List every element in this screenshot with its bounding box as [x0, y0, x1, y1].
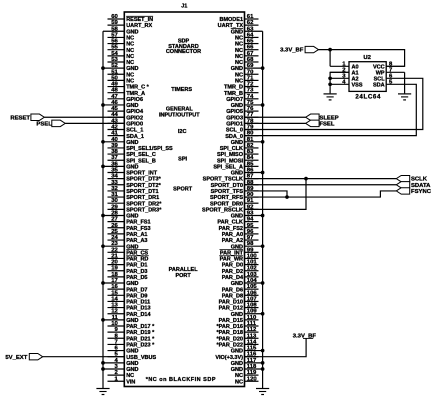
- svg-text:18: 18: [111, 272, 118, 278]
- pin 50 NC: [108, 75, 135, 84]
- svg-text:37: 37: [111, 155, 118, 161]
- ground (U2 WP): [398, 94, 411, 100]
- svg-text:101: 101: [247, 260, 258, 266]
- svg-text:GND: GND: [231, 29, 243, 35]
- pin 89 SPORT_TFS: [211, 186, 259, 195]
- pin 13 PAR_D13: [108, 303, 151, 312]
- svg-text:102: 102: [247, 266, 258, 272]
- pin 65 NC: [235, 39, 258, 48]
- svg-text:PAR_FS3: PAR_FS3: [126, 226, 150, 232]
- junction GND pin 117: [261, 361, 265, 365]
- svg-text:SLEEP: SLEEP: [319, 115, 338, 121]
- pin 120 NC: [235, 376, 258, 385]
- svg-text:119: 119: [247, 370, 257, 376]
- svg-text:3.3V_BF: 3.3V_BF: [280, 48, 304, 54]
- pin 112 *PAR_D18: [217, 327, 259, 336]
- svg-text:84: 84: [247, 155, 254, 161]
- pin 33 SPORT_DT2*: [108, 180, 162, 189]
- pin 27 PAR_FS1: [108, 217, 151, 226]
- pin 8 PAR_D21 *: [108, 333, 156, 342]
- pin 6 GND: [108, 346, 139, 355]
- pin 1 A0: [330, 61, 358, 70]
- svg-text:SPORT_RSCLK: SPORT_RSCLK: [202, 207, 243, 213]
- pin 117 GND: [231, 358, 263, 367]
- pin 1 VIN: [108, 376, 136, 385]
- port flag SDATA: [396, 182, 409, 188]
- svg-text:PAR_D4: PAR_D4: [222, 275, 244, 281]
- svg-text:21: 21: [111, 253, 118, 259]
- svg-text:22: 22: [111, 247, 118, 253]
- pin 60 RESET_IN: [108, 14, 154, 23]
- svg-text:SPI: SPI: [178, 157, 187, 163]
- wire 3.3V_BF to pin 116 VIO(+3.3V): [245, 338, 307, 356]
- svg-text:PAR_D11: PAR_D11: [126, 300, 150, 306]
- svg-text:PAR_WR: PAR_WR: [220, 257, 243, 263]
- svg-text:117: 117: [247, 358, 257, 364]
- pin 3 A2: [330, 73, 358, 82]
- pin 64 NC: [235, 32, 258, 41]
- svg-text:39: 39: [111, 143, 118, 149]
- wire pin 78 GPIO1 to FSEL: [245, 122, 306, 124]
- pin 103 PAR_D4: [222, 272, 259, 281]
- svg-text:PAR_D1: PAR_D1: [126, 263, 147, 269]
- svg-text:GND: GND: [231, 66, 243, 72]
- svg-text:48: 48: [111, 88, 118, 94]
- svg-text:*PAR_D16: *PAR_D16: [217, 324, 244, 330]
- svg-text:SPI_SEL_A: SPI_SEL_A: [213, 164, 243, 170]
- svg-text:45: 45: [111, 106, 118, 112]
- pin 10 PAR_D17 *: [108, 321, 156, 330]
- svg-text:104: 104: [247, 278, 258, 284]
- svg-text:VIO(+3.3V): VIO(+3.3V): [215, 355, 243, 361]
- svg-text:NC: NC: [126, 79, 134, 85]
- pin 87 SPORT_TSCLK: [203, 174, 259, 183]
- svg-text:VIN: VIN: [126, 379, 135, 385]
- svg-text:105: 105: [247, 284, 258, 290]
- pin 58 GND: [103, 26, 138, 35]
- pin 63 GND: [231, 26, 263, 35]
- wire PSEL to pin 43 GPIO0: [65, 122, 124, 124]
- pin 45 GPIO4: [108, 106, 144, 115]
- pin 101 PAR_D0: [222, 260, 259, 269]
- svg-text:PAR_D3: PAR_D3: [126, 269, 147, 275]
- pin 30 SPORT_DR2*: [108, 198, 163, 207]
- pin 34 SPORT_DT3*: [108, 174, 162, 183]
- svg-text:56: 56: [111, 39, 118, 45]
- ground (right bus): [256, 389, 269, 395]
- pin 109 GND: [231, 309, 263, 318]
- pin 23 GND: [103, 241, 138, 250]
- pin 11 GND: [103, 315, 138, 324]
- svg-text:115: 115: [247, 346, 257, 352]
- svg-text:PAR_D7: PAR_D7: [126, 287, 147, 293]
- svg-text:16: 16: [111, 284, 118, 290]
- svg-text:GND: GND: [126, 318, 138, 324]
- svg-text:PAR_CLK: PAR_CLK: [217, 220, 243, 226]
- svg-text:27: 27: [111, 217, 118, 223]
- svg-text:NC: NC: [235, 54, 243, 60]
- svg-text:108: 108: [247, 303, 258, 309]
- pin 74 GPIO7: [226, 94, 258, 103]
- junction GND pin 36: [101, 165, 105, 169]
- junction GND pin 23: [101, 244, 105, 248]
- pin 116 VIO(+3.3V): [215, 352, 258, 361]
- svg-text:113: 113: [247, 333, 257, 339]
- junction GND pin 46: [101, 103, 105, 107]
- svg-text:GND: GND: [231, 140, 243, 146]
- pin 28 GND: [103, 210, 138, 219]
- svg-text:USB_VBUS: USB_VBUS: [126, 355, 156, 361]
- wire pin 89 SPORT_TFS jog down: [245, 191, 288, 197]
- svg-text:PAR_D8: PAR_D8: [222, 293, 243, 299]
- pin 102 PAR_D2: [222, 266, 259, 275]
- svg-text:75: 75: [247, 100, 254, 106]
- pin 111 *PAR_D16: [217, 321, 259, 330]
- svg-text:GND: GND: [126, 349, 138, 355]
- svg-text:NC: NC: [126, 42, 134, 48]
- pin 59 UART_RX: [108, 20, 153, 29]
- pin 37 SPI_SEL_B: [108, 155, 156, 164]
- pin 73 TMR_B: [224, 88, 258, 97]
- svg-text:GND: GND: [126, 164, 138, 170]
- svg-text:PAR_RD: PAR_RD: [126, 257, 148, 263]
- svg-text:SPORT_DR2*: SPORT_DR2*: [126, 201, 162, 207]
- svg-text:PORT: PORT: [175, 273, 191, 279]
- pin 96 PAR_A0: [222, 229, 259, 238]
- junction SCLK branch: [304, 177, 308, 181]
- svg-text:PAR_A0: PAR_A0: [222, 232, 243, 238]
- section label PARALLEL PORT: [169, 267, 199, 279]
- svg-text:SPORT_DR1: SPORT_DR1: [126, 195, 159, 201]
- svg-text:64: 64: [247, 32, 254, 38]
- pin 114 *PAR_D22: [217, 339, 259, 348]
- svg-text:41: 41: [111, 131, 118, 137]
- svg-text:11: 11: [112, 315, 119, 321]
- wire 3.3V_BF branch to U2 pin 1 A0: [329, 50, 331, 67]
- pin 85 SPI_SEL_A: [213, 161, 258, 170]
- svg-text:GPIO5: GPIO5: [226, 109, 243, 115]
- svg-text:99: 99: [247, 247, 254, 253]
- junction 3.3V_BF / A0: [328, 48, 332, 52]
- pin 9 PAR_D19 *: [108, 327, 156, 336]
- svg-text:86: 86: [247, 168, 254, 174]
- pin 25 PAR_A1: [108, 229, 148, 238]
- pin 22 PAR_CS: [108, 247, 149, 256]
- pin 61 BMODE1: [219, 14, 258, 23]
- svg-text:PAR_D19 *: PAR_D19 *: [126, 330, 155, 336]
- svg-text:24LC64: 24LC64: [355, 94, 381, 101]
- svg-text:SPORT_TFS: SPORT_TFS: [211, 189, 244, 195]
- svg-text:114: 114: [247, 339, 257, 345]
- svg-text:57: 57: [111, 32, 118, 38]
- svg-text:GPIO0: GPIO0: [126, 121, 143, 127]
- svg-text:GND: GND: [126, 66, 138, 72]
- svg-text:GPIO1: GPIO1: [226, 121, 243, 127]
- svg-text:PAR_D12: PAR_D12: [219, 306, 243, 312]
- svg-text:100: 100: [247, 253, 258, 259]
- junction GND pin 104: [261, 281, 265, 285]
- pin 48 TMR_A: [108, 88, 146, 97]
- pin 92 SPORT_RSCLK: [202, 204, 258, 213]
- pin 68 NC: [235, 57, 258, 66]
- svg-text:SPI_MISO: SPI_MISO: [217, 152, 244, 158]
- svg-text:GPIO7: GPIO7: [226, 97, 243, 103]
- svg-text:SPORT_DT0: SPORT_DT0: [211, 183, 243, 189]
- svg-text:72: 72: [247, 82, 254, 88]
- svg-text:109: 109: [247, 309, 258, 315]
- svg-text:110: 110: [247, 315, 257, 321]
- svg-text:118: 118: [247, 364, 257, 370]
- svg-text:SPORT_DR3*: SPORT_DR3*: [126, 207, 162, 213]
- pin 53 NC: [108, 57, 135, 66]
- pin 6 SCL: [374, 73, 393, 82]
- svg-text:111: 111: [247, 321, 257, 327]
- svg-text:61: 61: [247, 14, 254, 20]
- port flag SLEEP: [306, 114, 319, 120]
- port flag RESET: [31, 114, 44, 120]
- pin 56 NC: [108, 39, 135, 48]
- svg-text:NC: NC: [126, 373, 134, 379]
- junction GND pin 86: [261, 171, 265, 175]
- junction GND pin 52: [101, 66, 105, 70]
- pin 91 SPORT_DR0: [210, 198, 259, 207]
- pin 88 SPORT_DT0: [211, 180, 259, 189]
- svg-text:VSS: VSS: [352, 82, 363, 88]
- pin 43 GPIO0: [108, 118, 144, 127]
- svg-text:96: 96: [247, 229, 254, 235]
- pin 86 GND: [231, 168, 263, 177]
- pin 4 VSS: [330, 79, 363, 88]
- svg-text:NC: NC: [235, 72, 243, 78]
- pin 77 GPIO3: [226, 112, 258, 121]
- svg-text:74: 74: [247, 94, 254, 100]
- svg-text:NC: NC: [126, 48, 134, 54]
- wire U2 A1,A2,VSS to ground: [330, 72, 349, 93]
- svg-text:49: 49: [111, 82, 118, 88]
- svg-text:GND: GND: [231, 171, 243, 177]
- svg-text:82: 82: [247, 143, 254, 149]
- svg-text:GPIO4: GPIO4: [126, 109, 144, 115]
- svg-text:93: 93: [247, 210, 254, 216]
- svg-text:GND: GND: [231, 361, 243, 367]
- junction GND pin 98: [261, 244, 265, 248]
- svg-text:GND: GND: [126, 361, 138, 367]
- svg-text:GND: GND: [231, 349, 243, 355]
- svg-text:SDA_1: SDA_1: [126, 134, 144, 140]
- pin 3 GND: [103, 364, 138, 373]
- svg-text:NC: NC: [235, 48, 243, 54]
- svg-text:29: 29: [111, 204, 118, 210]
- svg-text:RESET: RESET: [10, 115, 30, 121]
- svg-text:*PAR_D22: *PAR_D22: [217, 343, 244, 349]
- svg-text:SPORT_DT2*: SPORT_DT2*: [126, 183, 161, 189]
- svg-text:PAR_D17 *: PAR_D17 *: [126, 324, 155, 330]
- pin 39 SPI_SEL1/SPI_SS: [108, 143, 173, 152]
- svg-text:GND: GND: [126, 214, 138, 220]
- svg-text:*NC on BLACKFIN SDP: *NC on BLACKFIN SDP: [146, 377, 216, 383]
- pin 2 A1: [330, 67, 358, 76]
- svg-text:NC: NC: [235, 373, 243, 379]
- svg-text:TMR_C *: TMR_C *: [126, 85, 149, 91]
- pin 118 GND: [231, 364, 263, 373]
- svg-text:PAR_FS2: PAR_FS2: [219, 226, 243, 232]
- svg-text:33: 33: [111, 180, 118, 186]
- pin 113 *PAR_D20: [217, 333, 259, 342]
- svg-text:NC: NC: [235, 79, 243, 85]
- svg-text:SCLK: SCLK: [411, 177, 428, 183]
- pin 32 SPORT_DT1: [108, 186, 159, 195]
- svg-text:32: 32: [111, 186, 118, 192]
- pin 72 TMR_D: [224, 82, 258, 91]
- svg-text:26: 26: [111, 223, 118, 229]
- pin 7 PAR_D23 *: [108, 339, 156, 348]
- pin 79 SCL_0: [226, 125, 259, 134]
- junction GND pin 93: [261, 214, 265, 218]
- wire U2 pin 6 SCL to pin 79 SCL_0: [245, 78, 423, 129]
- svg-text:TMR_D: TMR_D: [224, 85, 243, 91]
- pin 106 PAR_D8: [222, 290, 259, 299]
- svg-text:PAR_D10: PAR_D10: [219, 300, 243, 306]
- pin 54 NC: [108, 51, 135, 60]
- svg-text:GPIO6: GPIO6: [126, 97, 143, 103]
- pin 70 NC: [235, 69, 258, 78]
- ground (left bus): [96, 389, 109, 395]
- svg-text:GPIO3: GPIO3: [226, 115, 243, 121]
- svg-text:5V_EXT: 5V_EXT: [5, 355, 27, 361]
- svg-text:PAR_D2: PAR_D2: [222, 269, 243, 275]
- svg-text:NC: NC: [235, 36, 243, 42]
- svg-text:TMR_A: TMR_A: [126, 91, 145, 97]
- svg-text:SPI_CLK: SPI_CLK: [220, 146, 243, 152]
- pin 104 GND: [231, 278, 263, 287]
- pin 44 GPIO2: [108, 112, 144, 121]
- svg-text:23: 23: [111, 241, 118, 247]
- svg-text:51: 51: [111, 69, 118, 75]
- junction GND pin 3: [101, 367, 105, 371]
- svg-text:SDA_0: SDA_0: [225, 134, 243, 140]
- svg-text:NC: NC: [126, 54, 134, 60]
- port flag FSEL: [306, 120, 319, 126]
- pin 57 NC: [108, 32, 135, 41]
- svg-text:12: 12: [111, 309, 118, 315]
- svg-text:31: 31: [111, 192, 118, 198]
- svg-text:98: 98: [247, 241, 254, 247]
- pin 20 PAR_D1: [108, 260, 148, 269]
- svg-text:NC: NC: [126, 72, 134, 78]
- svg-text:TMR_B: TMR_B: [224, 91, 243, 97]
- svg-text:FSEL: FSEL: [319, 121, 334, 127]
- svg-text:GND: GND: [231, 312, 243, 318]
- junction GND pin 75: [261, 103, 265, 107]
- pin 97 PAR_A2: [222, 235, 259, 244]
- junction GND pin 115: [261, 349, 265, 353]
- svg-text:SPORT_DT3*: SPORT_DT3*: [126, 177, 161, 183]
- pin 69 GND: [231, 63, 263, 72]
- svg-text:PAR_D14: PAR_D14: [126, 312, 151, 318]
- junction GND pin 28: [101, 214, 105, 218]
- svg-text:TIMERS: TIMERS: [171, 87, 192, 93]
- pin 76 GPIO5: [226, 106, 258, 115]
- wire pin 77 GPIO3 to SLEEP: [245, 116, 306, 118]
- svg-text:85: 85: [247, 161, 254, 167]
- svg-text:71: 71: [247, 75, 254, 81]
- junction GND pin 109: [261, 312, 265, 316]
- svg-text:107: 107: [247, 296, 258, 302]
- pin 95 PAR_FS2: [219, 223, 259, 232]
- pin 115 GND: [231, 346, 263, 355]
- pin 40 GND: [103, 137, 138, 146]
- svg-text:GPIO2: GPIO2: [126, 115, 143, 121]
- pin 2 NC: [108, 370, 135, 379]
- pin 47 GPIO6: [108, 94, 144, 103]
- pin 5 SDA: [373, 79, 393, 88]
- svg-text:GND: GND: [126, 281, 138, 287]
- svg-text:SDATA: SDATA: [411, 183, 431, 189]
- svg-text:SPORT_INT: SPORT_INT: [126, 171, 158, 177]
- svg-text:36: 36: [111, 161, 118, 167]
- junction GND pin 11: [101, 318, 105, 322]
- wire pin 87 SPORT_TSCLK to SCLK: [245, 178, 397, 180]
- svg-text:SPORT_DT1: SPORT_DT1: [126, 189, 158, 195]
- pin 83 SPI_MISO: [217, 149, 258, 158]
- svg-text:65: 65: [247, 39, 254, 45]
- svg-text:19: 19: [111, 266, 118, 272]
- svg-text:SPI_SEL1/SPI_SS: SPI_SEL1/SPI_SS: [126, 146, 173, 152]
- pin 80 SDA_0: [225, 131, 258, 140]
- svg-text:47: 47: [111, 94, 118, 100]
- svg-text:SPORT_TSCLK: SPORT_TSCLK: [203, 177, 243, 183]
- pin 81 GND: [231, 137, 263, 146]
- ground (U2 VSS): [324, 94, 337, 100]
- pin 66 NC: [235, 45, 258, 54]
- svg-text:20: 20: [111, 260, 118, 266]
- pin 5 USB_VBUS: [108, 352, 157, 361]
- svg-text:58: 58: [111, 26, 118, 32]
- IC U2 24LC64 EEPROM body: [349, 62, 386, 92]
- junction GND pin 81: [261, 140, 265, 144]
- svg-text:GND: GND: [126, 140, 138, 146]
- pin 108 PAR_D12: [219, 303, 259, 312]
- svg-text:GND: GND: [231, 214, 243, 220]
- svg-text:NC: NC: [126, 36, 134, 42]
- pin 93 GND: [231, 210, 263, 219]
- svg-text:SPORT_RFS: SPORT_RFS: [210, 195, 243, 201]
- svg-text:PAR_D13: PAR_D13: [126, 306, 150, 312]
- pin 24 PAR_A3: [108, 235, 148, 244]
- svg-text:PAR_D21 *: PAR_D21 *: [126, 336, 155, 342]
- svg-text:PAR_D6: PAR_D6: [222, 287, 243, 293]
- junction GND pin 118: [261, 367, 265, 371]
- svg-text:15: 15: [111, 290, 118, 296]
- svg-text:59: 59: [111, 20, 118, 26]
- pin 18 PAR_D5: [108, 272, 148, 281]
- pin 49 TMR_C *: [108, 82, 150, 91]
- pin 16 PAR_D7: [108, 284, 148, 293]
- pin 99 PAR_INT: [219, 247, 258, 256]
- svg-text:NC: NC: [235, 60, 243, 66]
- wire 3.3V_BF to U2 pin 8 VCC: [319, 50, 405, 67]
- svg-text:*PAR_D20: *PAR_D20: [217, 336, 244, 342]
- junction A2: [328, 76, 332, 80]
- port flag 3.3V_BF: [305, 46, 318, 52]
- svg-text:106: 106: [247, 290, 258, 296]
- pin 41 SDA_1: [108, 131, 144, 140]
- pin 119 NC: [235, 370, 258, 379]
- svg-text:91: 91: [247, 198, 254, 204]
- svg-text:76: 76: [247, 106, 254, 112]
- pin 26 PAR_FS3: [108, 223, 151, 232]
- pin 21 PAR_RD: [108, 253, 149, 262]
